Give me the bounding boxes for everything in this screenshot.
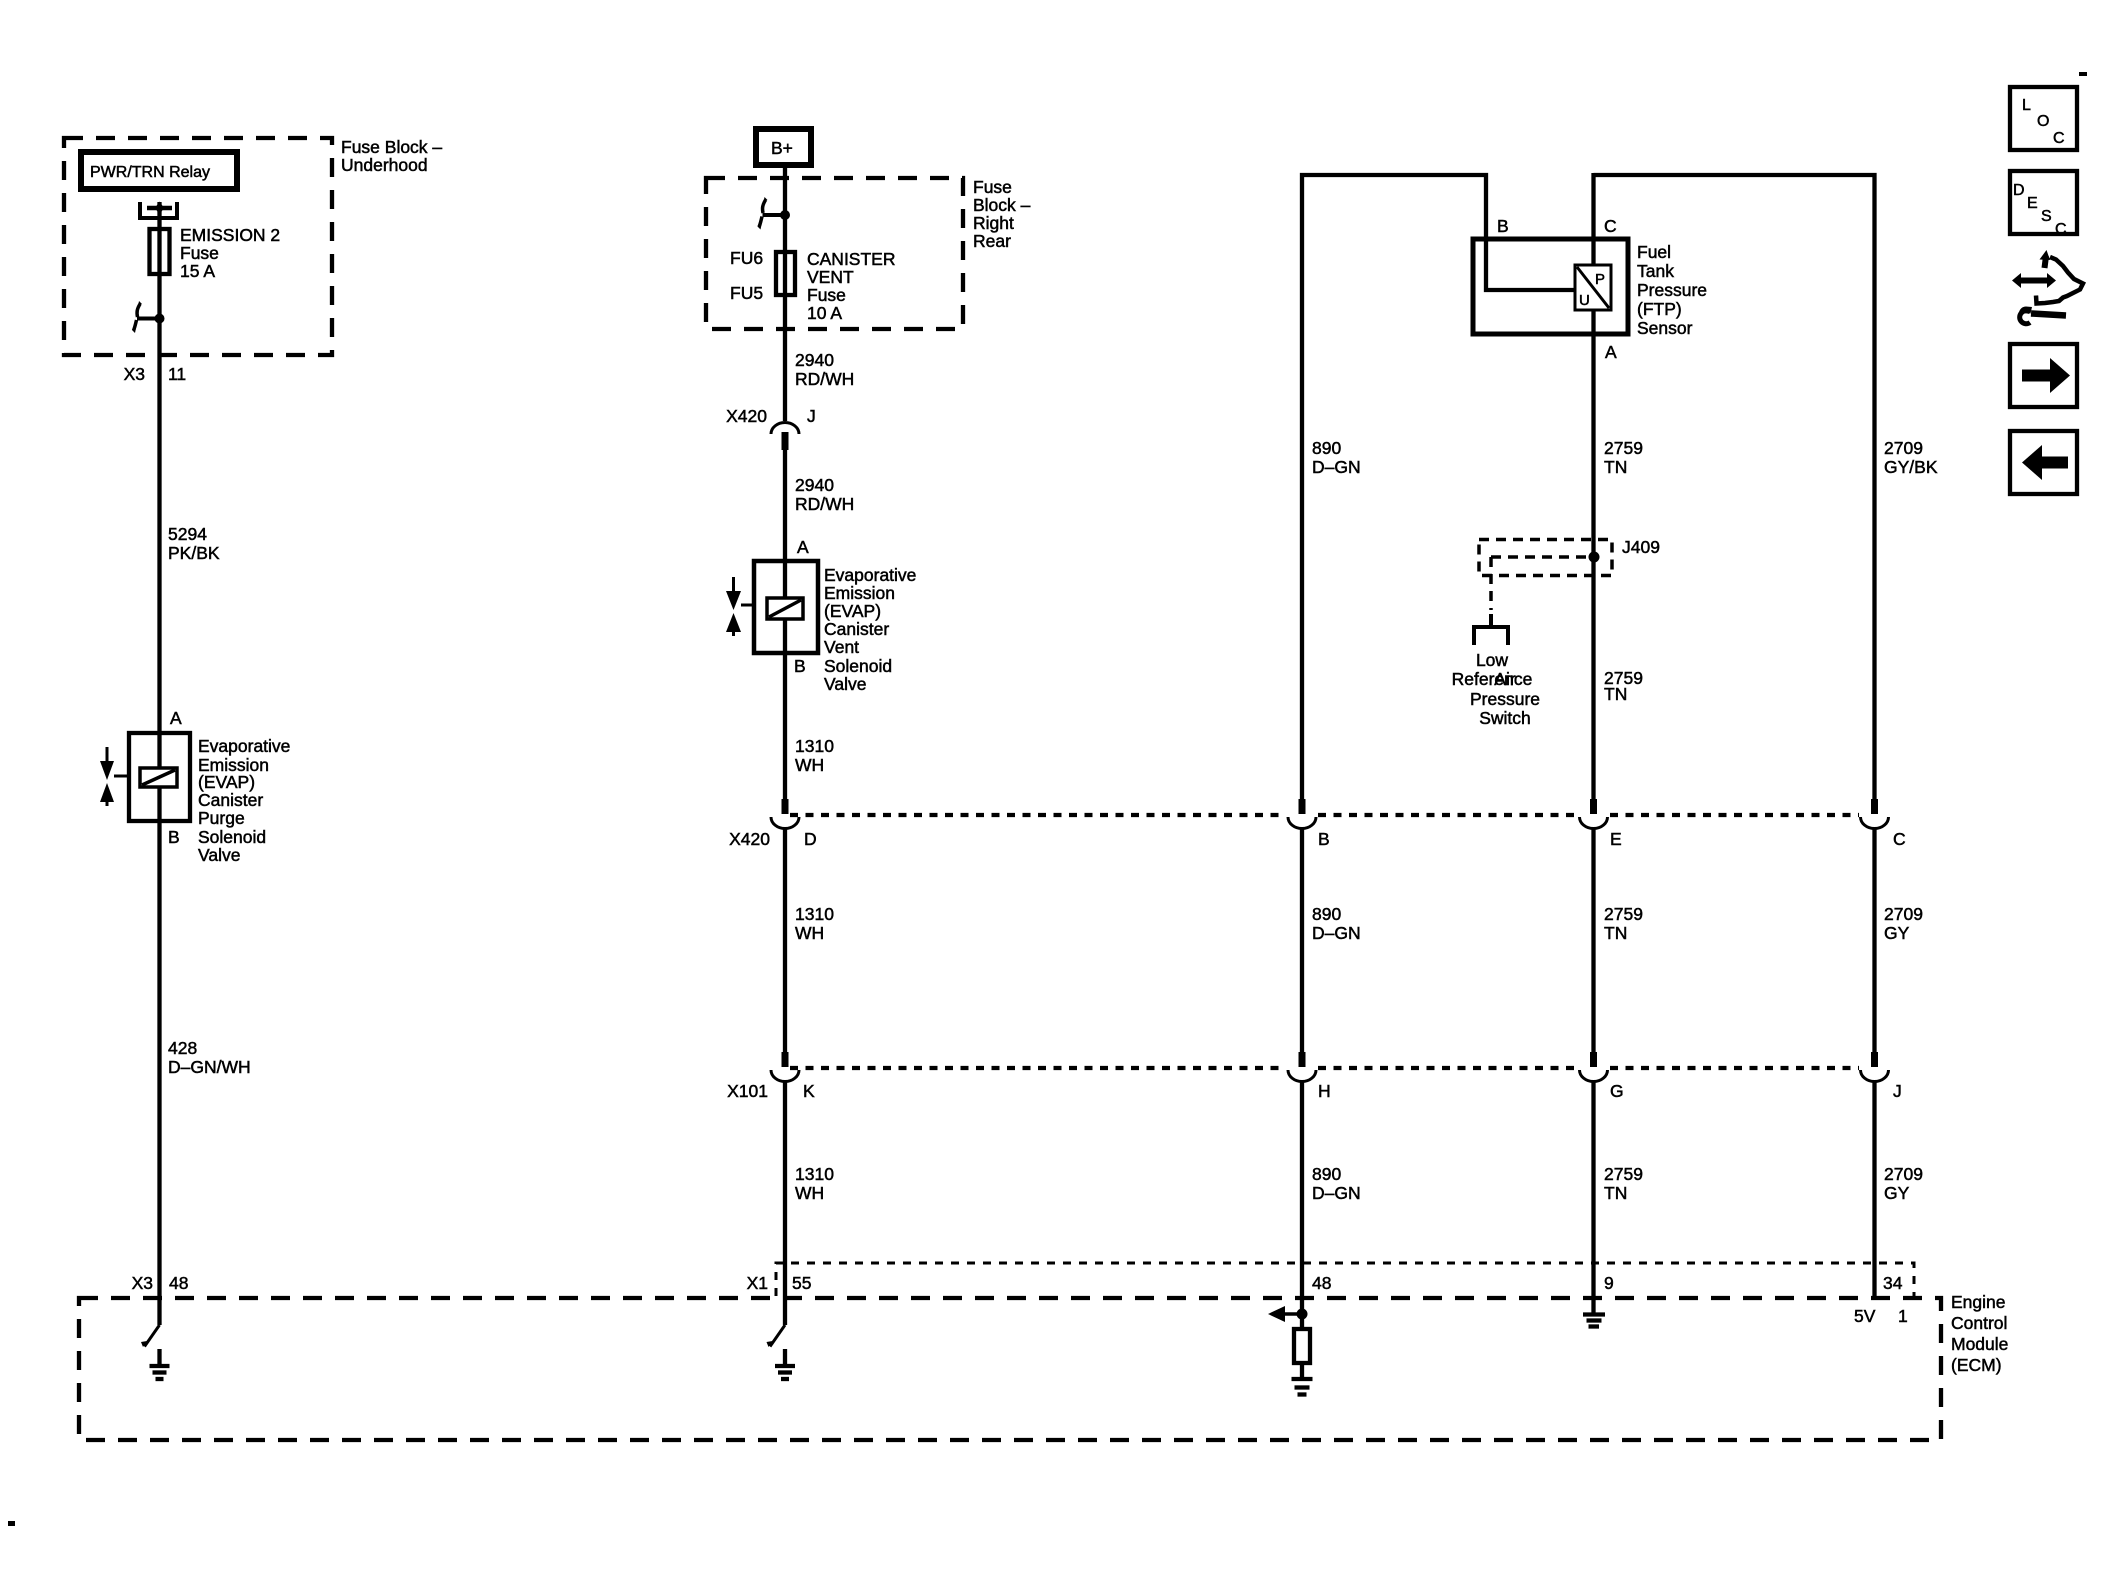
wire X420-J to valve (2940 RD/WH) (783, 450, 787, 799)
svg-text:S: S (2041, 208, 2052, 225)
svg-text:K: K (803, 1081, 815, 1101)
svg-text:C: C (2055, 221, 2067, 238)
solenoid valve EVAP canister vent (726, 561, 818, 653)
svg-text:E: E (1610, 829, 1622, 849)
fuse EMISSION 2 (150, 225, 281, 281)
svg-text:EngineControlModule(ECM): EngineControlModule(ECM) (1951, 1292, 2008, 1375)
low reference air pressure switch symbol (1474, 614, 1508, 645)
splice J409 dashed outline (1479, 540, 1612, 611)
svg-text:H: H (1318, 1081, 1331, 1101)
relay PWR/TRN (81, 152, 237, 189)
svg-text:C: C (1893, 829, 1906, 849)
svg-text:Pressure: Pressure (1470, 689, 1540, 709)
X420 in-line connector dotted row (790, 813, 1859, 817)
svg-text:L: L (2022, 97, 2031, 114)
svg-text:B: B (1318, 829, 1330, 849)
terminal hook X3-11 (132, 301, 165, 333)
svg-text:C: C (1604, 216, 1617, 236)
icon forward arrow (2010, 344, 2077, 407)
wire 2709 GY/BK harness top (1594, 175, 1875, 800)
svg-text:11: 11 (168, 364, 186, 384)
svg-text:E: E (2027, 195, 2038, 212)
fuel tank pressure sensor box (1473, 239, 1628, 334)
ground (ECM middle) (775, 1349, 795, 1379)
icon LOC (2010, 87, 2077, 150)
svg-text:Switch: Switch (1479, 708, 1531, 728)
ECM driver switch (X1-55) (767, 1325, 786, 1347)
wire X420-D to X101-K (1310 WH) (783, 829, 787, 1053)
wire X420-E to X101-G (2759 TN) (1591, 829, 1595, 1053)
wire resistor to ground (1300, 1363, 1304, 1377)
wire X101-G to ECM 9 (2759 TN) (1591, 1082, 1595, 1315)
icon compare vehicle outline (2036, 257, 2083, 304)
ECM dashed box (79, 1298, 1941, 1440)
svg-text:PWR/TRN Relay: PWR/TRN Relay (90, 164, 210, 181)
svg-text:A: A (170, 708, 182, 728)
svg-text:O: O (2037, 113, 2049, 130)
connector X101-H (1288, 1052, 1316, 1082)
label Low Reference / Air Pressure Switch (overlapped) (1452, 650, 1540, 728)
wire B+ to X420-J (2940 RD/WH) (783, 165, 787, 421)
wire X101-J to ECM 34 (2709 GY) (1872, 1082, 1876, 1299)
svg-text:5V: 5V (1854, 1306, 1876, 1326)
splice J409 junction dot (1589, 552, 1600, 563)
svg-text:Reference: Reference (1452, 669, 1533, 689)
stray mark bottom left (8, 1521, 15, 1526)
wire from relay through fuse to valve (5294 PK/BK) (157, 202, 161, 1325)
svg-text:Air: Air (1494, 669, 1516, 689)
svg-text:X101: X101 (727, 1081, 768, 1101)
svg-text:B+: B+ (771, 138, 793, 158)
wire 2759 TN FTP pin C down through sensor (1591, 173, 1595, 799)
icon DESC (2010, 171, 2077, 238)
svg-text:FU5: FU5 (730, 283, 763, 303)
connector X101-G (1580, 1052, 1608, 1082)
ground (ECM pin 48) (1292, 1379, 1313, 1395)
svg-text:P: P (1595, 271, 1605, 288)
ECM pin 48 signal arrow (1268, 1306, 1302, 1322)
svg-text:X420: X420 (726, 406, 767, 426)
wire X420-B to X101-H (890 D-GN) (1300, 829, 1304, 1053)
wire X101-H to ECM 48 (890 D-GN) (1300, 1082, 1304, 1328)
svg-text:G: G (1610, 1081, 1624, 1101)
inline connector X420-J (771, 423, 799, 450)
svg-text:Fuse Block –Underhood: Fuse Block –Underhood (341, 137, 442, 175)
solenoid valve EVAP canister purge (100, 733, 190, 821)
ECM X1 connector fine dotted outline (776, 1263, 1914, 1296)
FTP sensor P/U transducer square (1575, 265, 1611, 310)
svg-text:B: B (1497, 216, 1509, 236)
relay contact terminal cup (138, 202, 179, 219)
connector X420-D (771, 799, 799, 829)
svg-text:D: D (2013, 182, 2025, 199)
wire X101-K to X1-55 (1310 WH) (783, 1082, 787, 1326)
svg-text:X420: X420 (729, 829, 770, 849)
svg-text:A: A (797, 537, 809, 557)
B+ box (756, 129, 811, 165)
connector X420-C (1861, 799, 1889, 829)
svg-text:FU6: FU6 (730, 248, 763, 268)
ground (ECM left) (150, 1349, 170, 1379)
svg-text:9: 9 (1604, 1273, 1614, 1293)
svg-text:J: J (1893, 1081, 1902, 1101)
svg-text:Low: Low (1476, 650, 1508, 670)
connector X420-E (1580, 799, 1608, 829)
svg-text:B: B (168, 827, 180, 847)
connector X101-J (1861, 1052, 1889, 1082)
svg-text:D: D (804, 829, 817, 849)
svg-text:48: 48 (1312, 1273, 1331, 1293)
svg-text:X3: X3 (124, 364, 145, 384)
fuse block right rear dashed box (706, 178, 963, 329)
svg-text:B: B (794, 656, 806, 676)
fuse CANISTER VENT (730, 248, 895, 323)
connector X420-B (1288, 799, 1316, 829)
ECM pin 48 junction dot (1297, 1309, 1308, 1320)
icon compare vehicle double arrow (2012, 273, 2056, 288)
svg-text:J: J (807, 406, 816, 426)
stray mark top right (2079, 72, 2087, 76)
svg-text:A: A (1605, 342, 1617, 362)
svg-text:1: 1 (1898, 1306, 1908, 1326)
icon back arrow (2010, 431, 2077, 494)
ECM driver switch (X3-48) (141, 1325, 160, 1347)
X101 in-line connector dotted row (790, 1066, 1859, 1070)
icon compare wrench (2019, 306, 2066, 323)
svg-text:34: 34 (1883, 1273, 1903, 1293)
connector X101-K (771, 1052, 799, 1082)
ECM pull resistor (1294, 1329, 1310, 1363)
svg-text:J409: J409 (1622, 537, 1660, 557)
wire 890 D-GN harness top to FTP pin B (1302, 175, 1576, 800)
svg-text:U: U (1579, 292, 1590, 309)
svg-text:C: C (2053, 130, 2065, 147)
icon compare arrow tip (2040, 250, 2051, 268)
svg-text:X1: X1 (747, 1273, 768, 1293)
fuse block underhood dashed box (64, 138, 332, 355)
svg-text:X3: X3 (132, 1273, 153, 1293)
wire X420-C to X101-J (2709 GY) (1872, 829, 1876, 1053)
ground (ECM pin 9) (1583, 1315, 1605, 1327)
svg-text:48: 48 (169, 1273, 188, 1293)
terminal hook FU6/FU5 (758, 197, 791, 230)
svg-text:55: 55 (792, 1273, 811, 1293)
